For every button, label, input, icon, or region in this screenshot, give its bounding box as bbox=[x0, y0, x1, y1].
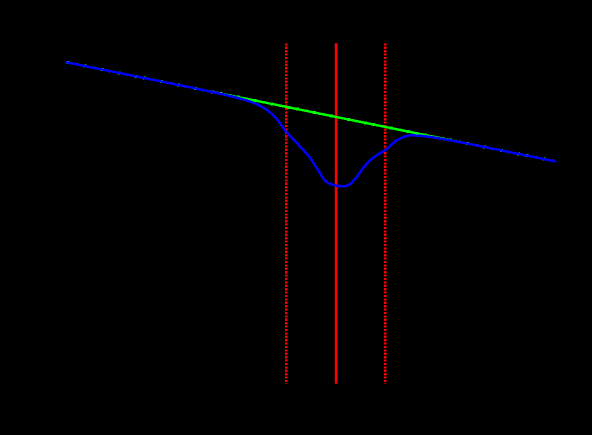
green continuum marker dots bbox=[67, 61, 554, 162]
red dotted right boundary line bbox=[384, 43, 387, 384]
red dotted left boundary line bbox=[285, 43, 288, 384]
blue spectrum curve with absorption dip bbox=[66, 62, 555, 186]
red solid center line bbox=[335, 43, 338, 384]
green continuum fit line bbox=[66, 62, 555, 161]
